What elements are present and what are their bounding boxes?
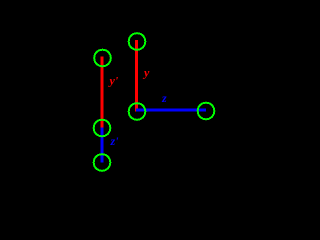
- svg-text:z': z': [110, 134, 120, 148]
- svg-text:z: z: [161, 91, 167, 105]
- node B: [129, 33, 146, 50]
- svg-text:y': y': [108, 74, 119, 88]
- wire y edge B-D (red vertical): [135, 40, 138, 112]
- wire y' edge A-C (red vertical): [101, 57, 104, 129]
- node A: [94, 50, 111, 67]
- node D: [129, 103, 146, 120]
- wire z' edge C-F (blue vertical): [101, 128, 104, 163]
- node E: [198, 103, 215, 120]
- node F: [94, 154, 111, 171]
- svg-text:y: y: [142, 66, 150, 80]
- wire z edge D-E (blue horizontal): [136, 109, 206, 112]
- node C: [94, 120, 111, 137]
